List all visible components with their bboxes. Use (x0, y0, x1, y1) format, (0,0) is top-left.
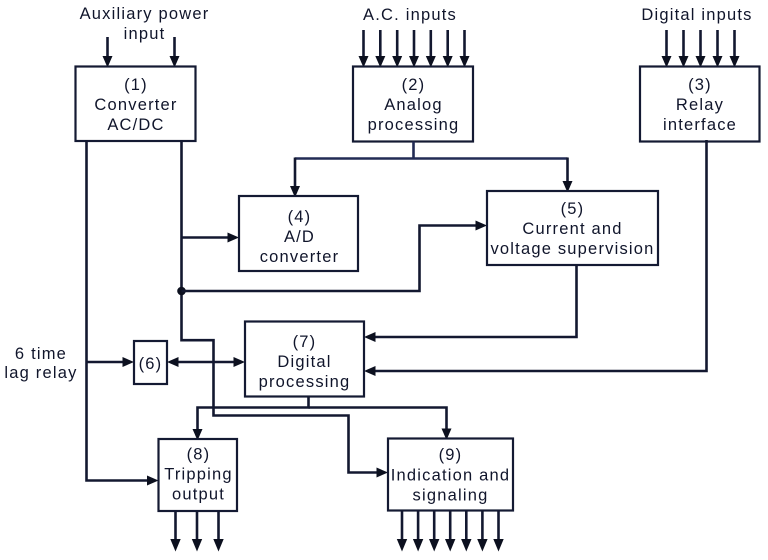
svg-text:(1): (1) (124, 76, 148, 94)
svg-text:(7): (7) (293, 333, 317, 351)
wire bus left branch arrow into block 4 top (290, 158, 300, 198)
svg-text:Tripping: Tripping (164, 466, 233, 484)
block 3 Relay interface (640, 67, 760, 142)
wire branch arrow into block 4 left (182, 233, 240, 243)
svg-text:Relay: Relay (676, 96, 724, 114)
wire from block 7 bottom splitting into blocks 8 and 9 (193, 397, 452, 441)
svg-text:Analog: Analog (384, 96, 443, 114)
block 4 A/D converter (239, 196, 358, 271)
block 7 Digital processing (245, 322, 364, 397)
wire from block 5 bottom down into block 7 right (364, 265, 577, 342)
svg-text:Current and: Current and (522, 220, 622, 238)
svg-text:converter: converter (260, 248, 340, 266)
block 9 Indication and signaling (388, 439, 513, 511)
svg-text:signaling: signaling (413, 487, 489, 505)
wire bus right branch arrow into block 5 top (563, 158, 573, 193)
wire from block 1 right bottom down with jog into block 9 (182, 140, 389, 478)
wire branch into block 6 (87, 357, 135, 367)
svg-text:(3): (3) (688, 76, 712, 94)
wire from junction dot to block 5 left (182, 221, 488, 292)
svg-text:processing: processing (368, 116, 460, 134)
label 6 time lag relay (4, 345, 77, 382)
svg-text:A/D: A/D (284, 228, 315, 246)
svg-text:input: input (124, 25, 166, 43)
block 5 Current and voltage supervision (487, 191, 658, 265)
svg-text:voltage supervision: voltage supervision (490, 240, 654, 258)
wire auxiliary input arrow 1 into block 1 (103, 37, 113, 68)
block 1 Converter AC/DC (76, 67, 196, 142)
svg-text:AC/DC: AC/DC (107, 116, 164, 134)
wire from block 2 bottom to horizontal bus (295, 142, 568, 159)
wire output arrows below block 9 (397, 511, 504, 552)
wire double arrow between block 6 and block 7 (167, 357, 245, 367)
svg-text:Indication and: Indication and (391, 467, 511, 485)
svg-text:Digital: Digital (277, 353, 331, 371)
svg-text:6 time: 6 time (15, 345, 67, 363)
wire digital input arrows into block 3 (662, 30, 740, 68)
wire auxiliary input arrow 2 into block 1 (170, 37, 180, 68)
block 8 Tripping output (159, 439, 238, 511)
wire from block 1 left bottom down and into block 8 (87, 140, 159, 486)
svg-text:(6): (6) (139, 355, 163, 373)
wire output arrows below block 8 (170, 511, 223, 552)
block 6 time lag relay (134, 341, 167, 384)
svg-text:(4): (4) (288, 208, 312, 226)
svg-text:Converter: Converter (94, 96, 177, 114)
svg-text:Auxiliary power: Auxiliary power (80, 5, 210, 23)
label Auxiliary power input (80, 5, 210, 43)
svg-text:output: output (172, 486, 225, 504)
block 2 Analog processing (353, 67, 473, 142)
wire A.C. input arrows into block 2 (359, 30, 470, 68)
svg-text:lag relay: lag relay (4, 364, 77, 382)
svg-text:interface: interface (663, 116, 737, 134)
wire from block 3 bottom down into block 7 right (364, 140, 707, 376)
junction dot on left vertical wire (177, 287, 186, 296)
svg-text:(9): (9) (439, 446, 463, 464)
svg-text:processing: processing (259, 373, 351, 391)
svg-text:Digital inputs: Digital inputs (641, 6, 752, 24)
svg-text:(8): (8) (187, 446, 211, 464)
svg-text:(5): (5) (561, 200, 585, 218)
svg-text:(2): (2) (402, 76, 426, 94)
svg-text:A.C. inputs: A.C. inputs (363, 6, 457, 24)
